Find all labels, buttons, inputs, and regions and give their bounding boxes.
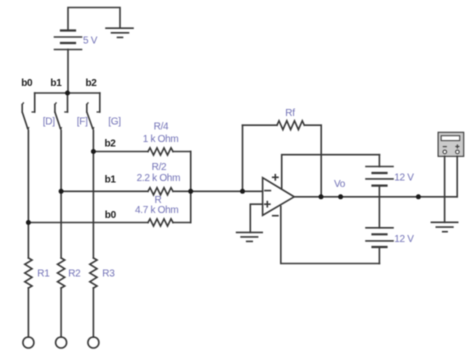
svg-text:5 V: 5 V (83, 36, 98, 47)
svg-text:1 k Ohm: 1 k Ohm (143, 134, 179, 145)
svg-text:b1: b1 (105, 174, 117, 185)
svg-text:Rf: Rf (285, 108, 295, 119)
svg-text:[D]: [D] (43, 116, 55, 127)
svg-text:Vo: Vo (334, 179, 346, 190)
svg-text:12 V: 12 V (394, 234, 414, 245)
svg-text:12 V: 12 V (394, 173, 414, 184)
svg-text:b0: b0 (21, 78, 33, 89)
svg-text:[F]: [F] (77, 116, 88, 127)
svg-text:2.2 k Ohm: 2.2 k Ohm (137, 173, 180, 184)
svg-text:b1: b1 (50, 78, 62, 89)
svg-text:[G]: [G] (108, 116, 121, 127)
svg-text:R3: R3 (102, 268, 115, 279)
svg-text:R/4: R/4 (154, 121, 169, 132)
svg-text:4.7 k Ohm: 4.7 k Ohm (135, 205, 178, 216)
svg-text:R2: R2 (68, 268, 81, 279)
svg-text:b0: b0 (105, 210, 117, 221)
svg-text:b2: b2 (105, 139, 117, 150)
svg-text:b2: b2 (86, 78, 98, 89)
svg-text:R1: R1 (37, 268, 50, 279)
svg-text:R/2: R/2 (152, 162, 167, 173)
